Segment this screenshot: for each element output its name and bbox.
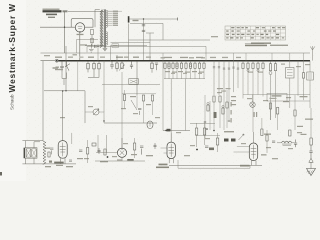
- resistor R1: [87, 60, 89, 72]
- comps under tube A: [45, 160, 73, 167]
- field coil zigzag: [43, 141, 46, 165]
- wire loop below C1: [62, 72, 67, 86]
- IF can box: [129, 79, 139, 85]
- title Westmark-Super W: [7, 3, 17, 93]
- right vertical wires group: [213, 61, 239, 95]
- wire vertical x110.5: [110, 46, 112, 61]
- paper background: [0, 0, 320, 181]
- output tube EL41: [58, 90, 67, 164]
- AVC arrow to EABC80: [239, 134, 245, 140]
- label bottom: [55, 69, 63, 70]
- wire cathode corner: [77, 39, 98, 53]
- long vertical x66: [65, 46, 67, 91]
- wire into tube grid: [40, 27, 75, 28]
- title Schaub: [10, 94, 15, 110]
- wire tube cathode drop: [79, 32, 81, 60]
- component cluster right of tube: [85, 30, 104, 46]
- rectifier tube AZ41: [117, 138, 126, 161]
- tube V1 triode: [75, 23, 84, 33]
- wire vertical x64: [64, 12, 66, 54]
- wire y123: [104, 122, 157, 124]
- right column components: [298, 61, 313, 108]
- comps between C and D upper: [190, 123, 236, 152]
- wire vertical x77.8 below bus: [77, 61, 79, 91]
- wire grid feedback loop: [71, 19, 93, 28]
- capacitor C3: [130, 61, 133, 69]
- boxed label on AVC line: [112, 44, 119, 48]
- fuse Si: [128, 16, 130, 22]
- mid cluster x124-158: [122, 90, 156, 123]
- label EZ40: [117, 159, 134, 161]
- speaker transformer: [22, 141, 50, 164]
- long vertical x43: [42, 61, 44, 141]
- label EC92: [77, 34, 84, 35]
- wire y168 C to D: [178, 160, 250, 168]
- antenna plug symbol: [53, 59, 59, 69]
- main chassis bus line: [41, 60, 311, 62]
- right bottom chain: [309, 108, 313, 169]
- antenna symbol top right: [310, 46, 314, 61]
- stamp label block: [43, 9, 68, 18]
- transformer primary lead top: [95, 10, 100, 28]
- wire into AZ40: [72, 133, 118, 153]
- tube EABC80: [249, 132, 257, 165]
- power transformer secondary winding bottom: [106, 32, 108, 45]
- label 10: [56, 67, 60, 68]
- wire vertical x143: [142, 18, 145, 60]
- comps between B and C: [131, 138, 157, 158]
- svg-text:Schaub: Schaub: [10, 94, 15, 110]
- volume pot: [85, 109, 104, 116]
- long vertical x171: [170, 79, 172, 142]
- wire vertical x150: [146, 33, 154, 61]
- resistor R2: [93, 61, 95, 78]
- power transformer core: [104, 9, 105, 47]
- bottom wire y163 left: [22, 163, 76, 165]
- resistor R6: [151, 60, 153, 73]
- wire x137 drop: [136, 60, 137, 95]
- svg-text:Westmark-Super W: Westmark-Super W: [7, 3, 17, 93]
- power transformer primary winding: [100, 10, 103, 48]
- resistor R3: [98, 60, 100, 78]
- wire top horizontal from stamp to transformer: [68, 11, 104, 13]
- resistor x261: [261, 118, 263, 136]
- transformer tap lines: [108, 11, 122, 26]
- wire heater line y40: [129, 39, 211, 41]
- extra tiny labels sheet-wide: [44, 55, 310, 159]
- table caption: [251, 42, 271, 44]
- wire vertical x128: [128, 23, 130, 60]
- detector cluster extra wires: [161, 90, 250, 153]
- small comp y129: [167, 129, 171, 132]
- right comb cluster AF stage: [242, 61, 264, 132]
- wire y91 horizontal: [44, 90, 85, 91]
- table left speck: [211, 36, 218, 37]
- IF can box right: [286, 61, 295, 108]
- wire mains line y23: [130, 23, 163, 40]
- capacitor C1: [60, 61, 64, 72]
- bottom wire y165 mid: [169, 164, 262, 166]
- long vertical x185: [185, 79, 187, 131]
- registration mark left edge: [0, 172, 2, 176]
- capacitor C4: [155, 63, 158, 70]
- specks above bus left: [73, 54, 84, 57]
- chassis ground bottom right: [307, 169, 316, 176]
- wire y46 AVC line: [87, 46, 206, 60]
- label C-2706: [156, 167, 169, 169]
- resistor R5 variable: [119, 60, 125, 71]
- wire vertical x98: [97, 44, 98, 61]
- above-bus stubs: [163, 53, 304, 61]
- wire mains line y19: [130, 18, 179, 22]
- power transformer secondary winding top: [106, 10, 108, 27]
- comps right of D: [266, 130, 275, 153]
- wire y84 mid horizontal: [102, 84, 160, 86]
- trimmer arrow: [65, 61, 70, 71]
- voltage table: [225, 26, 286, 40]
- label -250V: [240, 154, 267, 166]
- comps between A and B: [77, 140, 108, 163]
- transformer ground mark: [103, 48, 108, 51]
- bottom wire y161 mid: [95, 160, 145, 162]
- phono terminal box: [267, 94, 287, 102]
- wire R2 R3 bottom: [88, 76, 99, 78]
- detector cluster extra parts: [204, 102, 232, 131]
- detector cluster: [213, 88, 236, 130]
- tall resistor pair x270: [269, 61, 277, 120]
- long vertical x163: [162, 61, 164, 131]
- small res left of tube A: [48, 148, 54, 157]
- electrolytic oval: [147, 121, 153, 129]
- coupling cap on AVC line: [88, 45, 96, 48]
- label row above bus: [55, 44, 288, 59]
- capacitor C2: [110, 60, 114, 69]
- RF choke: [277, 126, 307, 147]
- long vertical x122: [121, 72, 123, 147]
- right mid cluster: [250, 95, 313, 136]
- bus junction dots: [65, 60, 304, 61]
- transformer bottom lead: [111, 43, 151, 46]
- label under ECH81: [159, 164, 168, 166]
- wire y94 right: [243, 94, 310, 96]
- long vertical x104: [103, 61, 104, 123]
- label EL41: [54, 162, 64, 166]
- tube ECH81 mid: [167, 133, 175, 163]
- long vertical x85: [84, 91, 86, 123]
- ground under coupling cap: [89, 44, 94, 52]
- resistor R4: [116, 55, 118, 72]
- wire y101 right: [253, 95, 311, 102]
- wire y130: [163, 130, 190, 131]
- comb cluster IF stage: [161, 57, 206, 79]
- upper wire y53: [41, 52, 311, 54]
